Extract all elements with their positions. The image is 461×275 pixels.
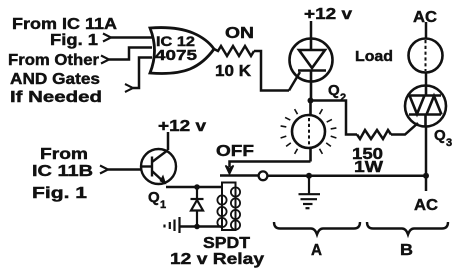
lamp Load: [409, 39, 443, 73]
svg-text:If Needed: If Needed: [10, 89, 102, 106]
wire +12v to Q1 collector: [167, 132, 170, 150]
wire Q2 gate diagonal: [289, 72, 300, 91]
svg-text:B: B: [400, 242, 413, 259]
wire load to Q3: [425, 73, 428, 87]
or-gate IC12 4075 body: [150, 28, 214, 74]
svg-text:Load: Load: [355, 48, 393, 65]
node junction diode bottom: [194, 224, 200, 230]
svg-text:1W: 1W: [354, 159, 384, 176]
wire IC11B to Q1 base: [108, 168, 142, 171]
svg-text:12 v Relay: 12 v Relay: [170, 251, 264, 268]
svg-text:From IC 11A: From IC 11A: [12, 16, 118, 33]
label If Needed: [10, 89, 102, 106]
ground: [299, 176, 321, 208]
label From IC 11A: [12, 16, 118, 33]
wire 150 resistor to Q3 gate: [391, 123, 418, 135]
wire main rail contact to AC: [268, 175, 427, 178]
label +12 v top: [304, 6, 352, 23]
label AC bottom: [414, 197, 438, 214]
label Fig. 1 (IC11B): [32, 185, 87, 202]
wire relay bottom: [180, 225, 222, 228]
label 4075: [155, 48, 197, 64]
svg-text:4075: 4075: [155, 48, 197, 64]
wire AC stub bottom: [425, 176, 428, 191]
label AND Gates: [10, 71, 100, 88]
svg-text:1: 1: [160, 199, 166, 211]
wire Q1 emitter to relay: [166, 186, 222, 189]
relay coil core: [222, 183, 236, 231]
svg-text:10 K: 10 K: [215, 63, 251, 80]
svg-text:Q: Q: [434, 127, 446, 144]
label +12 v Q1: [158, 118, 206, 135]
node IC11B arrowhead: [100, 166, 108, 174]
scr Q2: [290, 39, 333, 101]
svg-text:IC 12: IC 12: [156, 33, 195, 49]
wire OR output to Q2 gate: [254, 51, 289, 91]
label AC top: [413, 9, 437, 26]
wire AC top to load: [425, 22, 428, 39]
svg-text:Fig. 1: Fig. 1: [32, 185, 87, 202]
label IC 11B: [32, 163, 93, 180]
wire Q3 to rail: [425, 127, 428, 176]
label From Other: [8, 52, 99, 69]
lamp indicator: [292, 101, 325, 162]
label From (IC11B): [40, 146, 88, 163]
transistor Q1: [141, 149, 176, 184]
svg-text:2: 2: [340, 92, 346, 104]
svg-text:SPDT: SPDT: [203, 235, 250, 252]
node junction below Q2: [308, 98, 314, 104]
node input3 arrowhead: [125, 84, 133, 92]
triac Q3: [405, 86, 446, 127]
svg-text:+12 v: +12 v: [304, 6, 352, 23]
svg-text:AC: AC: [413, 9, 437, 26]
svg-text:A: A: [311, 242, 322, 259]
node input1 arrowhead: [103, 34, 111, 42]
wire input3 from AND-gates to OR gate: [133, 58, 152, 89]
svg-text:AC: AC: [414, 197, 438, 214]
svg-text:+12 v: +12 v: [158, 118, 206, 135]
node junction rail at AC column: [423, 173, 429, 179]
label 10 K: [215, 63, 251, 80]
svg-text:AND Gates: AND Gates: [10, 71, 100, 88]
label IC 12: [156, 33, 195, 49]
brace A: [274, 222, 360, 235]
ground chassis sideways: [165, 217, 180, 233]
node OFF arrowhead: [226, 166, 234, 175]
svg-text:Q: Q: [328, 82, 340, 99]
wire input2 from From-Other to OR gate: [109, 48, 152, 60]
resistor R 10K zigzag: [214, 46, 254, 56]
svg-text:From Other: From Other: [8, 52, 99, 69]
label A: [311, 242, 322, 259]
label 150: [352, 146, 383, 163]
node junction diode top: [194, 184, 200, 190]
label ON: [225, 25, 254, 42]
label Q3: [434, 127, 452, 149]
wire junction to 150 resistor: [311, 101, 358, 135]
svg-text:3: 3: [446, 137, 452, 149]
label OFF: [216, 143, 254, 160]
node contact open circle: [259, 171, 268, 180]
label 12 v Relay: [170, 251, 264, 268]
label B: [400, 242, 413, 259]
svg-text:Fig. 1: Fig. 1: [50, 32, 98, 49]
relay coil loops: [217, 187, 240, 229]
wire lamp bottom branch to relay armature: [230, 162, 311, 168]
brace B: [367, 222, 448, 235]
label Fig. 1: [50, 32, 98, 49]
lamp rays: [281, 109, 337, 154]
label Load: [355, 48, 393, 65]
diode D1 flyback: [191, 187, 204, 227]
label Q2: [328, 82, 346, 104]
label 1W: [354, 159, 384, 176]
node junction at ground: [306, 173, 312, 179]
svg-text:IC 11B: IC 11B: [32, 163, 93, 180]
wire main rail armature to contact: [220, 174, 259, 177]
label SPDT: [203, 235, 250, 252]
wire +12v to Q2 anode: [310, 21, 313, 39]
resistor R 150 1W zigzag: [357, 130, 391, 139]
svg-text:OFF: OFF: [216, 143, 254, 160]
label Q1: [148, 189, 166, 211]
svg-text:From: From: [40, 146, 88, 163]
svg-text:ON: ON: [225, 25, 254, 42]
node input2 arrowhead: [101, 56, 109, 64]
svg-text:Q: Q: [148, 189, 160, 206]
wire input1 from Fig.1 to OR gate: [111, 36, 152, 39]
